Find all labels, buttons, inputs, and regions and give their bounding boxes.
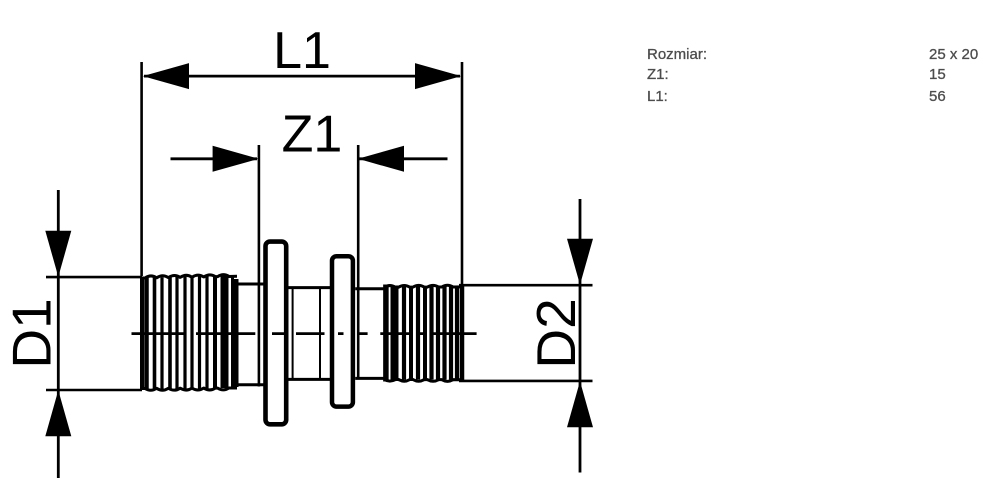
dimension D2 line — [579, 199, 582, 473]
arrowhead L1 right — [415, 63, 461, 89]
right neck bottom — [355, 377, 384, 380]
svg-text:Z1: Z1 — [282, 106, 343, 164]
svg-text:D1: D1 — [1, 298, 63, 368]
arrowhead L1 left — [143, 63, 189, 89]
left barb end cap — [234, 279, 239, 387]
dimension D1 line — [57, 190, 60, 478]
arrowhead Z1 right — [358, 146, 404, 172]
svg-text:L1: L1 — [273, 22, 331, 80]
extension line L1 left — [140, 62, 143, 276]
left barb top wavy outline — [141, 275, 237, 278]
right barb wide band — [391, 286, 399, 381]
left barb bottom wavy outline — [141, 388, 237, 390]
tick D2 top — [459, 284, 593, 287]
mid cylinder bottom — [289, 378, 331, 381]
arrowhead Z1 left — [213, 146, 259, 172]
tick D2 bottom — [459, 380, 593, 383]
arrowhead D2 top — [567, 239, 593, 285]
arrowhead D1 bottom — [45, 390, 71, 436]
spec table — [647, 46, 707, 63]
fitting right end face — [460, 285, 465, 381]
right barb top wavy outline — [384, 285, 463, 287]
centerline — [132, 332, 477, 335]
arrowhead D2 bottom — [567, 381, 593, 427]
flange 2 — [332, 256, 353, 406]
extension line L1 right — [461, 62, 464, 285]
extension line Z1 left — [258, 145, 261, 387]
dimension Z1 right line — [359, 157, 448, 160]
svg-text:D2: D2 — [525, 298, 587, 368]
right neck top — [355, 287, 384, 290]
mid cylinder edge line right — [319, 289, 321, 378]
dimension L1 line — [144, 75, 460, 78]
tick D1 top — [46, 276, 142, 279]
right barb bottom wavy outline — [384, 379, 463, 381]
left neck top — [236, 283, 265, 286]
dimension Z1 left line — [171, 157, 258, 160]
flange 1 — [266, 242, 287, 425]
arrowhead D1 top — [45, 231, 71, 277]
mid cylinder top — [289, 286, 331, 289]
right barb rib lines — [404, 287, 457, 380]
right barb cap — [383, 285, 389, 382]
extension line Z1 right — [357, 145, 360, 379]
fitting left end face — [140, 277, 144, 391]
mid cylinder edge line left — [292, 289, 294, 378]
tick D1 bottom — [46, 389, 142, 392]
left neck bottom — [236, 383, 265, 386]
left barb rib lines — [147, 276, 233, 390]
